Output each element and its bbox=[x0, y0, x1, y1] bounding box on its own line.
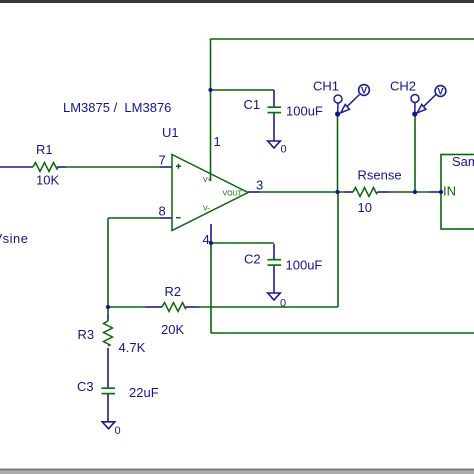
svg-text:100uF: 100uF bbox=[286, 258, 323, 273]
svg-text:V-: V- bbox=[203, 206, 210, 213]
svg-text:10: 10 bbox=[358, 200, 372, 215]
svg-text:4: 4 bbox=[203, 232, 210, 247]
svg-text:10K: 10K bbox=[36, 173, 59, 188]
svg-text:IN: IN bbox=[443, 184, 456, 199]
svg-text:LM3875 / LM3876: LM3875 / LM3876 bbox=[63, 100, 171, 115]
svg-text:0: 0 bbox=[280, 298, 286, 310]
svg-text:R3: R3 bbox=[78, 327, 95, 342]
svg-text:Rsense: Rsense bbox=[358, 168, 402, 183]
svg-text:22uF: 22uF bbox=[129, 385, 159, 400]
svg-text:CH1: CH1 bbox=[313, 79, 339, 94]
svg-text:Sample: Sample bbox=[452, 154, 474, 169]
svg-text:20K: 20K bbox=[161, 322, 184, 337]
svg-text:8: 8 bbox=[159, 204, 166, 219]
svg-text:VOUT: VOUT bbox=[223, 191, 243, 198]
svg-text:C2: C2 bbox=[244, 252, 261, 267]
svg-text:V+: V+ bbox=[203, 177, 212, 184]
svg-text:3: 3 bbox=[256, 178, 263, 193]
svg-text:0: 0 bbox=[115, 425, 121, 437]
svg-text:4.7K: 4.7K bbox=[119, 340, 146, 355]
svg-text:V: V bbox=[438, 86, 444, 96]
svg-text:C1: C1 bbox=[244, 97, 261, 112]
svg-text:CH2: CH2 bbox=[390, 79, 416, 94]
svg-text:R1: R1 bbox=[36, 142, 53, 157]
svg-text:100uF: 100uF bbox=[286, 104, 323, 119]
svg-text:C3: C3 bbox=[77, 379, 94, 394]
svg-text:0: 0 bbox=[281, 144, 287, 156]
svg-text:1: 1 bbox=[214, 134, 221, 149]
svg-text:R2: R2 bbox=[165, 284, 182, 299]
svg-text:7: 7 bbox=[159, 153, 166, 168]
svg-text:U1: U1 bbox=[162, 125, 179, 140]
svg-text:V: V bbox=[361, 85, 367, 95]
svg-text:Vsine: Vsine bbox=[0, 231, 29, 246]
